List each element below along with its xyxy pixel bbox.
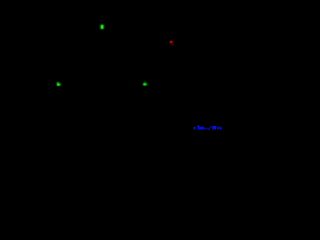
green LED 1 core: [101, 25, 104, 29]
red LED core: [170, 41, 172, 43]
green LED 2 glow: [56, 82, 61, 86]
watermark slash: [207, 126, 212, 130]
watermark W zigzag: [217, 127, 219, 130]
green LED 3 faint tail: [144, 81, 146, 84]
red LED glow: [169, 40, 173, 44]
green LED 3 hotspot: [144, 84, 146, 85]
green LED 2 core (L shape): [57, 82, 60, 85]
green LED 3 core: [143, 83, 146, 85]
green LED 2 hotspot: [57, 84, 59, 86]
watermark R block: [212, 126, 216, 130]
red LED hotspot: [171, 41, 172, 42]
green LED 3 glow: [142, 82, 147, 86]
green LED 1 glow: [100, 24, 105, 30]
red LED tail reflection: [172, 44, 174, 46]
watermark small s mark: [205, 128, 206, 130]
green LED 1 hotspot: [101, 25, 103, 28]
watermark J letter: [197, 126, 199, 127]
watermark X glyph: [193, 127, 196, 130]
watermark ames letters: [199, 128, 205, 129]
watermark signature (blue): [193, 126, 222, 130]
